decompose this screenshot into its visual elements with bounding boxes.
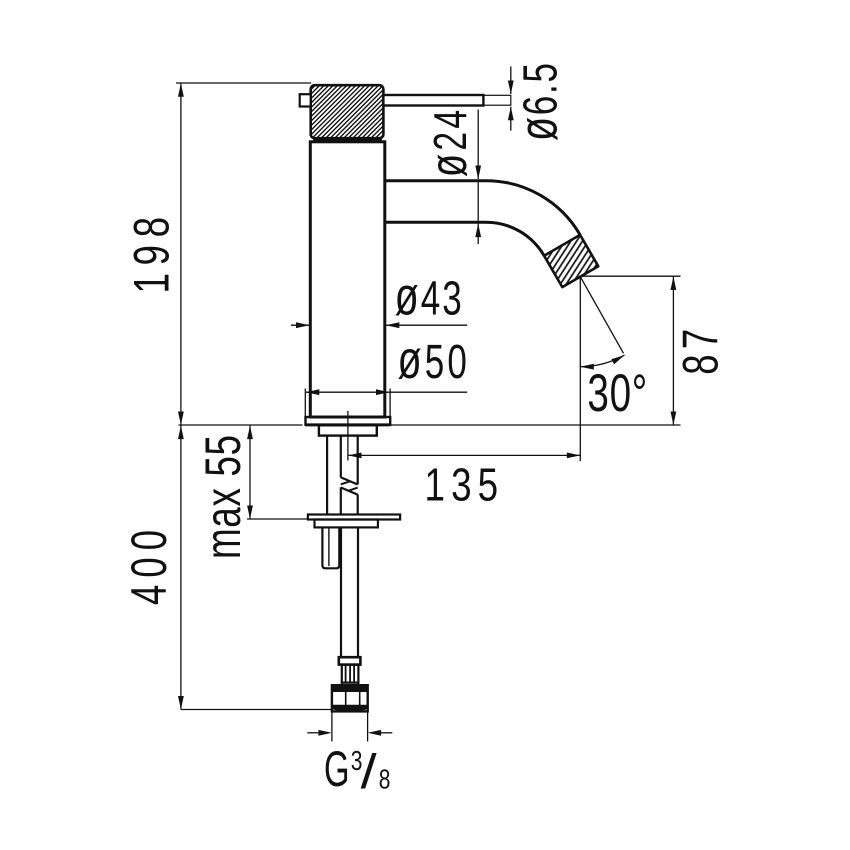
svg-text:ø43: ø43 xyxy=(395,267,462,328)
svg-text:max 55: max 55 xyxy=(195,435,251,559)
svg-text:G: G xyxy=(324,741,350,798)
svg-text:ø24: ø24 xyxy=(419,110,477,177)
svg-text:400: 400 xyxy=(121,530,177,605)
svg-text:ø6.5: ø6.5 xyxy=(509,63,570,141)
svg-text:8: 8 xyxy=(379,765,391,796)
svg-text:ø50: ø50 xyxy=(398,330,467,391)
svg-text:198: 198 xyxy=(124,217,180,294)
svg-text:30°: 30° xyxy=(587,363,647,422)
svg-text:/: / xyxy=(361,746,377,799)
svg-text:135: 135 xyxy=(425,459,499,511)
